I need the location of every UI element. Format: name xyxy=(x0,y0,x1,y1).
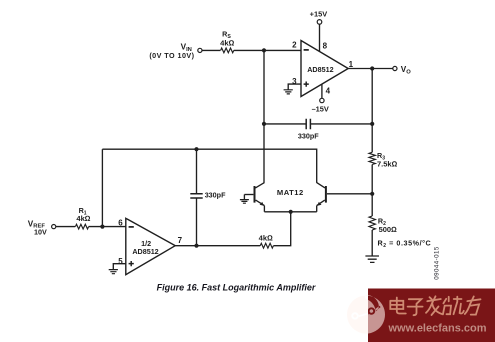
transistor Q2 xyxy=(325,186,327,203)
transistor Q1 xyxy=(254,186,256,203)
-15V supply xyxy=(321,84,323,98)
svg-text:2: 2 xyxy=(292,41,297,50)
node on feedback line at C2 xyxy=(194,147,198,151)
wire VREF to R1 xyxy=(56,226,75,228)
node cap line left xyxy=(262,122,266,126)
watermark title glyphs xyxy=(390,296,480,315)
wire RS to op-amp U1 pin2 xyxy=(234,49,301,51)
svg-text:10V: 10V xyxy=(34,227,47,236)
capacitor C1 right wire xyxy=(310,123,372,125)
op-amp U2 xyxy=(126,218,175,274)
op-amp U1 xyxy=(301,41,348,97)
node C2 bottom on output line xyxy=(194,244,198,248)
svg-text:330pF: 330pF xyxy=(205,191,226,200)
node input junction xyxy=(262,48,266,52)
node A output xyxy=(370,66,374,70)
char zi xyxy=(408,299,423,315)
terminal VIN xyxy=(198,48,202,52)
node pin6 junction xyxy=(100,225,104,229)
wire emitter rail xyxy=(264,211,316,213)
node R3-R2 junction xyxy=(370,192,374,196)
char you xyxy=(465,296,481,314)
svg-text:Figure 16. Fast Logarithmic Am: Figure 16. Fast Logarithmic Amplifier xyxy=(157,283,316,293)
svg-text:AD8512: AD8512 xyxy=(307,65,333,74)
wire feedback line to Q2 collector xyxy=(102,149,316,183)
svg-text:4kΩ: 4kΩ xyxy=(259,233,273,242)
wire U1 output to VO xyxy=(348,68,393,70)
node emitter rail center xyxy=(289,210,293,214)
svg-text:1: 1 xyxy=(349,60,354,69)
capacitor C1 330pF horizontal: left wire xyxy=(264,123,306,125)
char dian xyxy=(390,298,406,314)
svg-text:7.5kΩ: 7.5kΩ xyxy=(377,160,398,169)
resistor R3 xyxy=(369,152,375,164)
ground U1 pin3 xyxy=(288,84,301,90)
resistor R2 xyxy=(369,216,375,230)
svg-text:8: 8 xyxy=(323,42,328,51)
wire U2 output xyxy=(175,245,260,247)
terminal VREF xyxy=(52,225,56,229)
svg-text:www.elecfans.com: www.elecfans.com xyxy=(388,323,487,335)
wire R2 to ground xyxy=(371,230,373,256)
watermark box xyxy=(368,289,495,342)
watermark logo xyxy=(347,295,385,334)
svg-text:5: 5 xyxy=(118,257,123,266)
wire input node down to Q1 collector xyxy=(263,50,265,183)
capacitor C2 bottom wire xyxy=(196,198,198,246)
resistor R1 xyxy=(75,224,88,229)
wire R1 to U2 pin6 xyxy=(89,226,126,228)
svg-text:+15V: +15V xyxy=(310,9,328,18)
resistor RS xyxy=(221,48,234,53)
node on cap line right xyxy=(370,122,374,126)
svg-text:3: 3 xyxy=(292,77,297,86)
svg-text:4kΩ: 4kΩ xyxy=(220,38,234,47)
wire left vertical to pin6 node xyxy=(101,149,103,226)
capacitor C2 plates xyxy=(190,194,202,198)
svg-text:(0V TO 10V): (0V TO 10V) xyxy=(149,51,194,60)
char fa xyxy=(426,296,442,315)
wire 4k to emitter rail corner xyxy=(273,212,290,246)
ground U2 pin5 xyxy=(113,264,126,270)
svg-text:330pF: 330pF xyxy=(298,132,319,141)
svg-text:500Ω: 500Ω xyxy=(379,225,398,234)
svg-text:–15V: –15V xyxy=(312,104,329,113)
svg-text:AD8512: AD8512 xyxy=(132,247,158,256)
svg-text:7: 7 xyxy=(178,236,183,245)
svg-text:R2 = 0.35%/°C: R2 = 0.35%/°C xyxy=(378,238,432,249)
wire R3 to R2 xyxy=(371,165,373,217)
svg-text:VO: VO xyxy=(401,65,411,75)
svg-text:09044-015: 09044-015 xyxy=(434,246,441,280)
+15V supply xyxy=(319,24,321,51)
wire VIN to RS xyxy=(202,49,220,51)
resistor 4k emitter xyxy=(260,243,273,248)
ground Q1 base xyxy=(243,195,245,200)
terminal VO xyxy=(393,66,397,70)
svg-text:6: 6 xyxy=(118,219,123,228)
svg-text:MAT12: MAT12 xyxy=(277,188,304,197)
svg-text:4: 4 xyxy=(326,87,331,96)
capacitor C1 plates xyxy=(306,119,310,129)
ground below R2 xyxy=(365,256,379,262)
capacitor C2 330pF vertical: top wire xyxy=(196,149,198,194)
wire output node down to R3 xyxy=(371,69,373,153)
char shao xyxy=(443,297,464,315)
svg-text:4kΩ: 4kΩ xyxy=(76,214,90,223)
